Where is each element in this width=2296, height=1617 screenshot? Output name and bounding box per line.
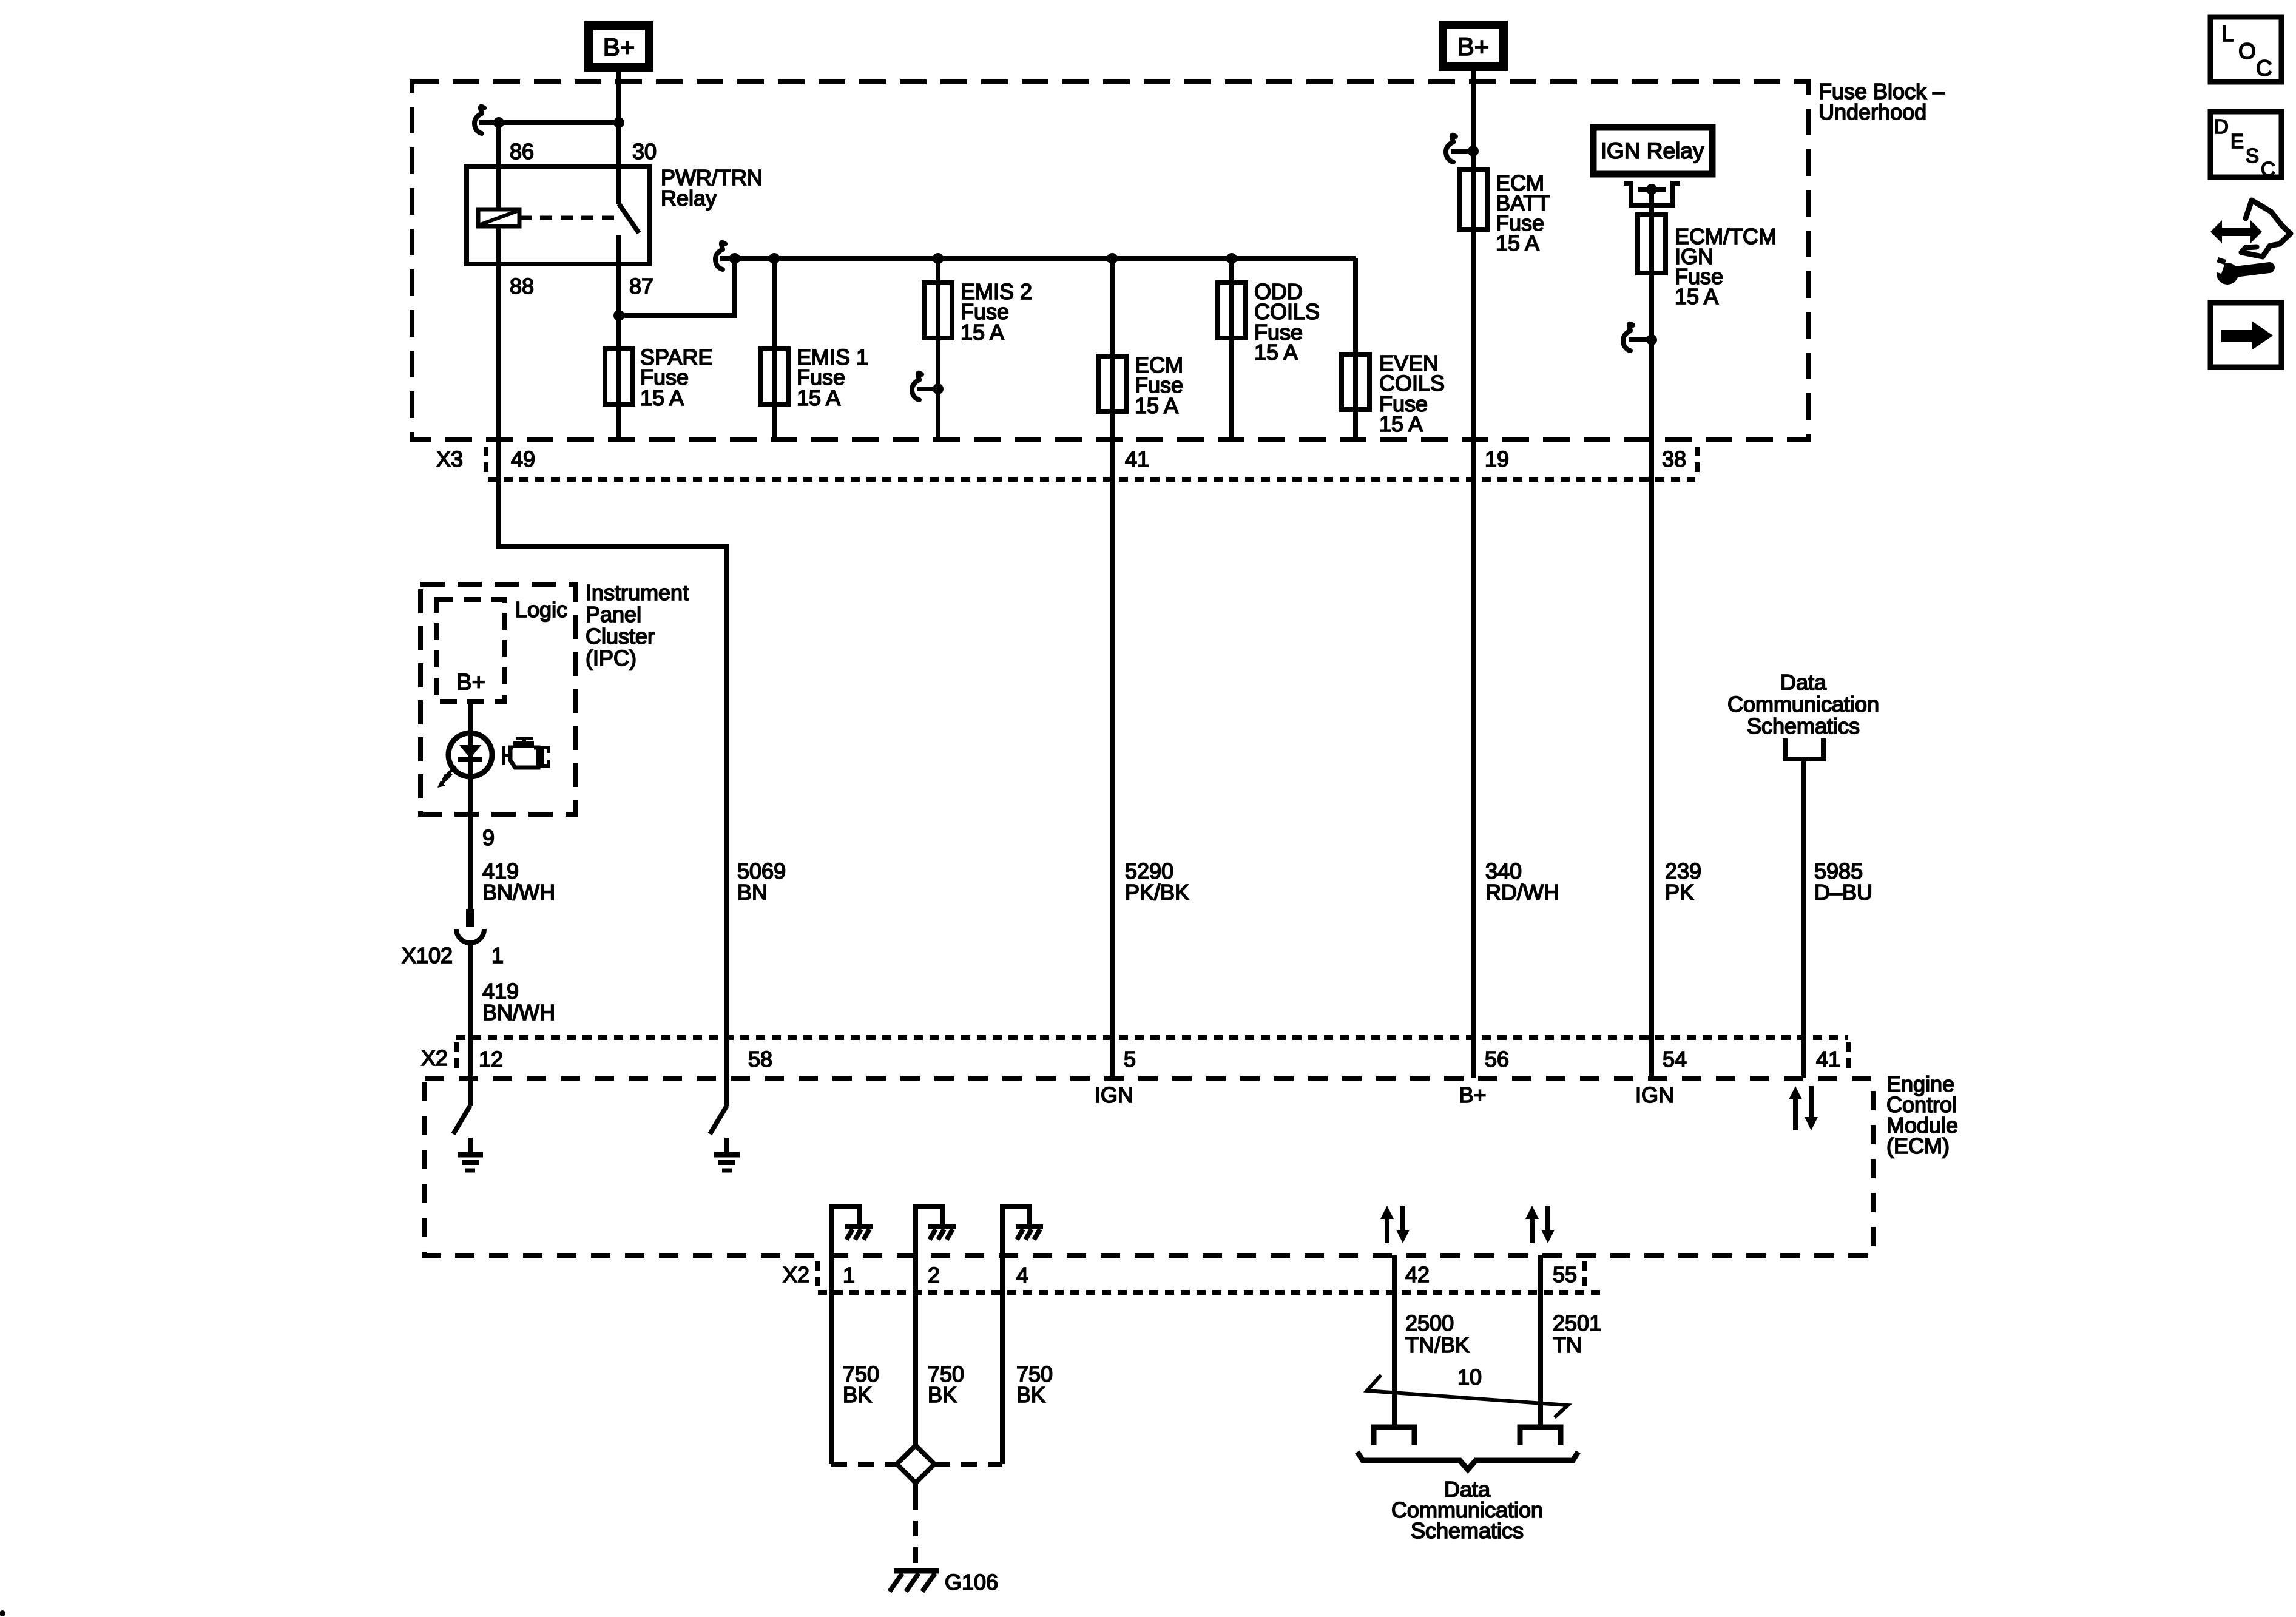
chassis ground symbol pin 2 xyxy=(928,1224,956,1229)
svg-text:15 A: 15 A xyxy=(640,385,684,410)
clip on ECM/TCM IGN wire xyxy=(1623,324,1633,351)
connector under wire 42 xyxy=(1374,1427,1414,1445)
svg-text:Cluster: Cluster xyxy=(586,624,655,649)
svg-text:S: S xyxy=(2246,144,2259,167)
IPC Logic box xyxy=(436,599,505,701)
svg-text:C: C xyxy=(2256,56,2272,81)
junction ECM BATT clip tap xyxy=(1468,146,1479,157)
svg-text:BN: BN xyxy=(737,880,768,905)
X3 separator right xyxy=(1695,447,1700,477)
relay coil xyxy=(478,209,519,226)
hand/arrow tool icon xyxy=(2220,228,2253,236)
relay IGN Relay label box xyxy=(1593,127,1712,174)
power feed B+ box 2 xyxy=(1443,25,1504,67)
svg-text:Instrument: Instrument xyxy=(586,580,689,605)
wire ECM ground pin 2 (750 BK) xyxy=(916,1206,942,1255)
splice xyxy=(897,1445,934,1483)
svg-text:15 A: 15 A xyxy=(1135,393,1178,418)
ground symbol pin 12 xyxy=(468,1138,473,1155)
dashed wire to splice (right) xyxy=(934,1462,1002,1467)
svg-text:42: 42 xyxy=(1405,1262,1430,1287)
junction ECM/TCM IGN clip tap xyxy=(1646,334,1657,345)
X2 bottom separator left xyxy=(815,1261,820,1291)
svg-text:1: 1 xyxy=(491,943,504,968)
wire pin 88 to X3 pin 49 to X2 pin 58 (5069 BN) xyxy=(499,226,727,1106)
clip connector on 86 feed xyxy=(474,107,484,133)
svg-text:10: 10 xyxy=(1457,1365,1482,1389)
svg-text:X2: X2 xyxy=(421,1045,448,1070)
svg-text:B+: B+ xyxy=(1459,1082,1486,1107)
svg-text:49: 49 xyxy=(511,447,535,471)
wire IGN relay to X2 pin 54 (239 PK) xyxy=(1649,189,1654,1078)
wire ECM fuse to X2 pin 5 (5290 PK/BK) xyxy=(1110,258,1115,1078)
svg-text:41: 41 xyxy=(1816,1047,1840,1072)
svg-text:O: O xyxy=(2238,39,2256,64)
svg-text:B+: B+ xyxy=(603,33,635,61)
svg-text:C: C xyxy=(2261,158,2275,180)
svg-text:88: 88 xyxy=(510,274,534,299)
svg-text:Communication: Communication xyxy=(1727,692,1879,717)
connector under wire 55 xyxy=(1520,1427,1561,1445)
bracket under Data Comm label xyxy=(1785,738,1823,759)
svg-text:E: E xyxy=(2230,130,2244,152)
Instrument Panel Cluster box xyxy=(420,584,575,814)
wire ODD COILS branch xyxy=(1229,258,1234,439)
svg-text:56: 56 xyxy=(1485,1047,1509,1072)
svg-text:12: 12 xyxy=(479,1047,503,1072)
svg-text:Schematics: Schematics xyxy=(1747,714,1860,738)
svg-text:L: L xyxy=(2221,21,2234,46)
svg-text:TN/BK: TN/BK xyxy=(1405,1332,1470,1357)
svg-text:BN/WH: BN/WH xyxy=(482,880,555,905)
data arrows pin 41 xyxy=(1793,1097,1798,1130)
relay PWR/TRN box xyxy=(467,167,650,264)
twisted pair marker (10) xyxy=(1367,1375,1568,1417)
svg-text:Relay: Relay xyxy=(661,186,717,211)
IGN relay output terminals xyxy=(1624,183,1680,205)
svg-text:X2: X2 xyxy=(783,1262,809,1287)
dashed wire to splice (left) xyxy=(831,1462,897,1467)
chassis ground symbol pin 1 xyxy=(845,1224,873,1229)
relay switch xyxy=(616,167,621,204)
engine icon xyxy=(516,737,533,740)
wire IPC B+ to pin 9 (419 BN/WH) xyxy=(468,701,473,909)
svg-text:30: 30 xyxy=(632,139,657,164)
svg-text:BN/WH: BN/WH xyxy=(482,1000,555,1025)
X2 connector dashed line xyxy=(456,1035,1848,1040)
fuse EVEN COILS 15A xyxy=(1342,354,1369,410)
svg-text:G106: G106 xyxy=(945,1570,998,1595)
X3 connector dashed line xyxy=(488,477,1695,482)
wire B+2 through ECM BATT fuse to X2 pin 56 (340 RD/WH) xyxy=(1471,67,1476,1078)
wire 5985 D-BU to X2 pin 41 xyxy=(1801,759,1806,1078)
wire ECM ground pin 1 (750 BK) xyxy=(831,1206,859,1255)
Fuse Block - Underhood box xyxy=(412,82,1808,439)
junction 87/SPARE xyxy=(613,310,624,321)
svg-text:B+: B+ xyxy=(1457,32,1490,61)
svg-text:15 A: 15 A xyxy=(1254,340,1298,365)
svg-text:PK: PK xyxy=(1665,880,1694,905)
ECM internal switch to ground (pin 12) xyxy=(453,1106,470,1134)
wire 419 BN/WH to X2 pin 12 xyxy=(468,943,473,1106)
svg-text:X102: X102 xyxy=(402,943,453,968)
svg-text:86: 86 xyxy=(510,139,534,164)
connector X102 xyxy=(466,909,474,927)
junction ECM fuse tap xyxy=(1107,253,1118,264)
crossbar at IGN relay output xyxy=(1638,187,1666,192)
fuse EMIS 1 15A xyxy=(760,349,788,404)
wire to coil pin 86 xyxy=(496,123,501,209)
svg-text:2500: 2500 xyxy=(1405,1311,1454,1335)
wire pin 4 to splice xyxy=(1000,1255,1005,1464)
fuse SPARE 15A xyxy=(605,349,633,404)
LOC box xyxy=(2210,17,2281,82)
wrench icon xyxy=(2217,263,2238,285)
power feed B+ box 1 xyxy=(589,25,649,67)
ground G106 xyxy=(894,1568,939,1574)
svg-text:9: 9 xyxy=(482,825,495,850)
svg-text:Panel: Panel xyxy=(586,602,641,627)
LED light arrows xyxy=(445,766,456,777)
arrow box xyxy=(2210,303,2281,367)
chassis ground symbol pin 4 xyxy=(1016,1224,1043,1229)
X3 separator xyxy=(484,447,488,477)
X2 bottom connector dashed line xyxy=(818,1290,1602,1295)
X2 bottom separator right xyxy=(1582,1261,1587,1291)
dashed wire to G106 xyxy=(913,1494,918,1568)
junction EMIS2 tap xyxy=(933,253,944,264)
svg-text:Data: Data xyxy=(1780,670,1827,695)
svg-text:BK: BK xyxy=(928,1382,957,1407)
data arrows pin 55 xyxy=(1530,1217,1535,1243)
svg-text:Underhood: Underhood xyxy=(1818,100,1926,124)
svg-text:1: 1 xyxy=(843,1263,855,1288)
X2 separator left xyxy=(454,1042,459,1074)
wire B+ to relay pin 30 xyxy=(616,67,621,167)
fuse ECM 15A xyxy=(1098,356,1126,411)
svg-text:PK/BK: PK/BK xyxy=(1125,880,1189,905)
junction EMIS1 tap xyxy=(769,253,780,264)
svg-text:41: 41 xyxy=(1125,447,1149,471)
svg-text:19: 19 xyxy=(1485,447,1509,471)
wire EVEN COILS branch xyxy=(1353,258,1358,439)
junction 86 tap xyxy=(493,117,504,128)
svg-text:15 A: 15 A xyxy=(797,385,840,410)
wire pin 1 to splice xyxy=(829,1255,834,1464)
svg-text:54: 54 xyxy=(1663,1047,1687,1072)
svg-text:15 A: 15 A xyxy=(1675,284,1718,309)
ECM internal switch to ground (pin 58) xyxy=(710,1106,727,1134)
wire below splice xyxy=(913,1483,918,1494)
svg-text:IGN: IGN xyxy=(1095,1082,1133,1107)
junction EMIS2 clip tap xyxy=(933,383,944,394)
svg-text:38: 38 xyxy=(1662,447,1686,471)
clip on ECM BATT wire xyxy=(1446,135,1456,162)
clip on EMIS2 branch xyxy=(912,373,922,400)
brace Data Communication Schematics (bottom) xyxy=(1357,1452,1578,1470)
svg-text:15 A: 15 A xyxy=(1379,411,1423,436)
fuse ECM BATT 15A xyxy=(1459,170,1487,229)
data arrows pin 42 xyxy=(1385,1217,1389,1243)
svg-text:BK: BK xyxy=(1016,1382,1045,1407)
fuse feed bus xyxy=(720,256,1356,261)
svg-text:Schematics: Schematics xyxy=(1411,1518,1524,1543)
indicator LED (MIL) xyxy=(448,733,492,777)
clip on fuse bus xyxy=(715,243,725,269)
svg-text:58: 58 xyxy=(748,1047,772,1072)
wire pin 42 (2500 TN/BK) xyxy=(1392,1255,1397,1427)
junction ODD COILS tap xyxy=(1226,253,1237,264)
svg-text:55: 55 xyxy=(1553,1262,1577,1287)
fuse ODD COILS 15A xyxy=(1218,283,1246,338)
svg-text:TN: TN xyxy=(1553,1332,1582,1357)
svg-text:15 A: 15 A xyxy=(961,320,1004,345)
svg-text:RD/WH: RD/WH xyxy=(1485,880,1559,905)
svg-text:(IPC): (IPC) xyxy=(586,646,636,670)
svg-text:D–BU: D–BU xyxy=(1814,880,1872,905)
svg-text:BK: BK xyxy=(843,1382,872,1407)
svg-text:2501: 2501 xyxy=(1553,1311,1601,1335)
svg-text:Logic: Logic xyxy=(515,597,567,622)
wire SPARE branch xyxy=(616,316,621,439)
DESC box xyxy=(2210,112,2281,177)
junction on B+ wire xyxy=(613,117,624,128)
wire EMIS2 branch xyxy=(936,258,940,439)
svg-text:5: 5 xyxy=(1124,1047,1136,1072)
X2 separator right xyxy=(1846,1042,1851,1074)
fuse EMIS 2 15A xyxy=(924,283,952,338)
wire relay pin 87 to fuse bus xyxy=(619,258,735,316)
Engine Control Module box xyxy=(425,1078,1873,1255)
svg-text:X3: X3 xyxy=(436,447,463,471)
svg-text:4: 4 xyxy=(1016,1263,1028,1288)
junction bus/87 feed xyxy=(729,253,740,264)
svg-text:IGN Relay: IGN Relay xyxy=(1601,138,1704,163)
junction IGN relay output xyxy=(1646,184,1657,195)
ground symbol pin 58 xyxy=(724,1138,729,1155)
svg-text:2: 2 xyxy=(928,1263,940,1288)
svg-text:87: 87 xyxy=(629,274,653,299)
svg-text:D: D xyxy=(2214,115,2229,138)
svg-text:15 A: 15 A xyxy=(1496,231,1539,255)
wire relay pin 86 feed xyxy=(479,120,619,125)
wire EMIS1 branch xyxy=(772,258,777,439)
fuse ECM/TCM IGN 15A xyxy=(1638,215,1666,273)
wire pin 2 to splice xyxy=(913,1255,918,1445)
svg-text:IGN: IGN xyxy=(1635,1082,1674,1107)
wire pin 55 (2501 TN) xyxy=(1538,1255,1543,1427)
svg-text:(ECM): (ECM) xyxy=(1886,1133,1950,1158)
stray dot xyxy=(0,1610,5,1616)
relay coil-switch link dashed xyxy=(519,216,615,220)
svg-text:B+: B+ xyxy=(456,670,485,695)
wire ECM ground pin 4 (750 BK) xyxy=(1002,1206,1030,1255)
